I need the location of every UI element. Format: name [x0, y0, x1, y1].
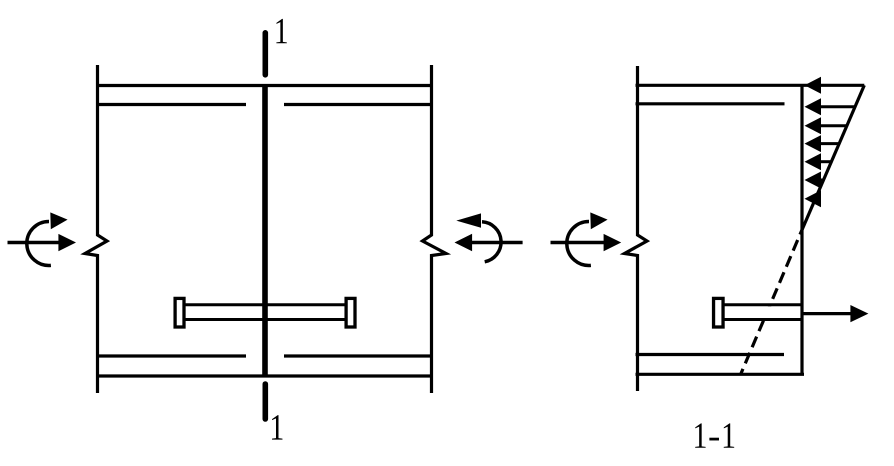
left beam: top inner flange line right segment [284, 103, 433, 106]
section view moment symbol: arc arrowhead [590, 212, 607, 229]
section view: top inner flange line [636, 102, 785, 105]
section label 1 (top) [276, 19, 286, 43]
left beam: bottom inner flange line right segment [284, 354, 433, 357]
stress arrow row 4 [805, 153, 832, 170]
section view moment symbol: vector line [551, 241, 608, 244]
stress arrow row 2 [805, 117, 848, 134]
section view: right web edge [800, 85, 803, 374]
left moment symbol: vector line [8, 241, 63, 244]
stress arrow row 6 head [805, 190, 822, 207]
bolt tension force arrow line [802, 312, 852, 315]
section view: left column edge with break zigzag [625, 66, 648, 391]
section view moment symbol: rotation arc [567, 221, 591, 265]
bolt tension force arrowhead [850, 305, 868, 322]
left beam: top chord line [96, 84, 433, 87]
left beam: left column edge with break zigzag [85, 65, 107, 393]
bolt right head (left figure) [346, 298, 355, 327]
section mark 1 bottom dash [262, 384, 268, 419]
left moment symbol: arc arrowhead [50, 212, 67, 229]
right moment symbol: vector line [470, 241, 523, 244]
section title 1-1 [695, 423, 734, 447]
stress arrow row 3 [805, 135, 840, 152]
bolt shaft (left figure) [183, 305, 347, 320]
left beam: right column edge with break zigzag [423, 65, 447, 393]
right moment symbol: rotation arc [482, 222, 501, 262]
stress diagram: solid diagonal boundary [800, 85, 864, 234]
right moment symbol: arc arrowhead [456, 213, 481, 227]
left beam: top inner flange line left segment [96, 103, 246, 106]
left beam: bottom chord line [96, 374, 433, 377]
bolt head (section view) [714, 298, 724, 327]
section view: top chord line extending to stress apex [636, 84, 865, 87]
splice joint center line [262, 85, 268, 376]
stress arrow row 1 [805, 98, 856, 115]
section view: bottom chord line [636, 373, 805, 376]
stress arrow row 5 [805, 172, 824, 189]
section label 1 (bottom) [272, 415, 282, 439]
stress arrow row 0 head [805, 77, 822, 94]
stress diagram: dashed neutral axis extension [741, 235, 800, 374]
section view moment symbol: vector arrowhead [604, 234, 622, 251]
bolt left head (left figure) [175, 298, 184, 327]
right moment symbol: vector arrowhead [455, 234, 473, 251]
left moment symbol: rotation arc [27, 221, 51, 265]
left beam: bottom inner flange line left segment [96, 354, 246, 357]
left moment symbol: vector arrowhead [58, 234, 76, 251]
section view: bottom inner flange line [636, 353, 785, 356]
section mark 1 top dash [262, 33, 268, 75]
bolt shaft (section view) [722, 305, 802, 320]
